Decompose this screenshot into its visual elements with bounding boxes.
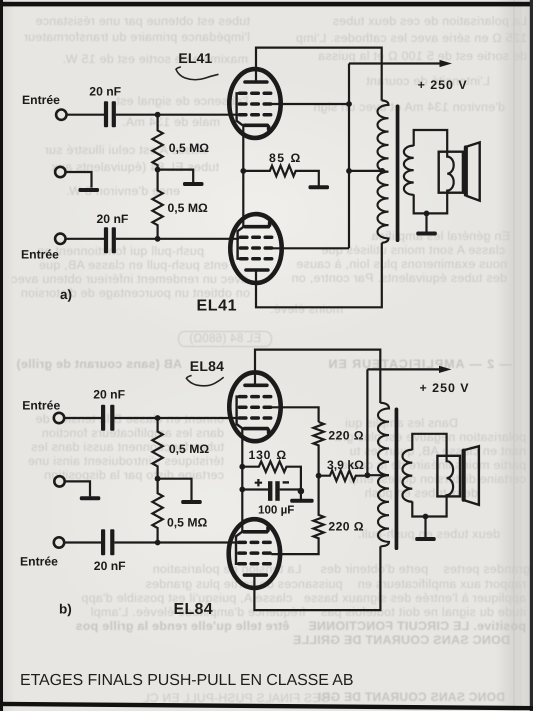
transformer T2 primary winding bbox=[378, 403, 389, 547]
node 220Ω junction bbox=[316, 473, 322, 479]
polarity + mark C5 bbox=[255, 479, 262, 486]
wire C1 to grid V1 bbox=[116, 114, 239, 116]
wire cathode V4 up bbox=[241, 489, 243, 532]
wire input2a to C2 bbox=[66, 238, 105, 240]
terminal stub a (ground input) bbox=[55, 167, 65, 177]
speaker LS1 frame box bbox=[439, 152, 463, 193]
svg-text:20 nF: 20 nF bbox=[94, 559, 126, 573]
node cathode junction a bbox=[240, 168, 246, 174]
+250V supply arrow b bbox=[367, 368, 440, 370]
node cathode/100µF bbox=[239, 487, 245, 493]
node secondary ground junction b bbox=[423, 514, 429, 520]
page border left bbox=[0, 0, 3, 711]
ground b2 (stub) bbox=[80, 496, 101, 500]
node junction C2/R2 bbox=[155, 236, 161, 242]
svg-text:EL41: EL41 bbox=[197, 297, 238, 314]
wire C4 to grid V4 bbox=[114, 541, 239, 543]
svg-text:20 nF: 20 nF bbox=[93, 388, 125, 402]
wire cathodes V1/V2 join bbox=[242, 125, 244, 227]
svg-text:a): a) bbox=[60, 287, 72, 302]
terminal stub b (ground input) bbox=[54, 476, 64, 486]
page border right bbox=[530, 0, 533, 711]
ground b4 (secondary) bbox=[424, 517, 426, 538]
capacitor C2 20 nF bbox=[104, 227, 116, 253]
resistor R5 0,5 MΩ (lower b) bbox=[152, 479, 162, 543]
wire anode V3 to transformer primary top bbox=[255, 350, 380, 403]
wire anode V1 to transformer primary top bbox=[256, 48, 382, 101]
node junction R4/R5 bbox=[155, 476, 161, 482]
speaker LS1 voice coil bbox=[447, 152, 454, 193]
svg-text:0,5 MΩ: 0,5 MΩ bbox=[169, 141, 209, 155]
svg-text:0,5 MΩ: 0,5 MΩ bbox=[168, 201, 208, 215]
wire secondary bottom to speaker a bbox=[414, 192, 448, 213]
wire input1a to C1 bbox=[67, 114, 105, 116]
wire +250V rail b bbox=[366, 369, 368, 475]
svg-text:3,9 kΩ: 3,9 kΩ bbox=[327, 458, 364, 472]
wire center tap T2 bbox=[367, 474, 389, 476]
wire secondary top to speaker b bbox=[412, 434, 446, 456]
svg-text:220Ω: 220Ω bbox=[328, 519, 364, 533]
svg-text:130Ω: 130Ω bbox=[249, 448, 288, 462]
speaker LS1 membrane bar bbox=[464, 145, 468, 196]
node rail/tap a bbox=[346, 168, 352, 174]
node cathode/130Ω bbox=[239, 464, 245, 470]
transformer T2 core bbox=[395, 408, 399, 551]
svg-text:85 Ω: 85 Ω bbox=[269, 151, 302, 165]
svg-text:20 nF: 20 nF bbox=[97, 212, 129, 226]
resistor R9 130 Ω bbox=[242, 461, 301, 499]
wire screen V3 to 220Ω bbox=[272, 407, 319, 422]
capacitor C4 20 nF bbox=[101, 529, 114, 555]
speaker LS2 frame box bbox=[437, 456, 460, 497]
pentode V2 EL41 (lower, flipped) bbox=[230, 214, 281, 283]
capacitor C3 20 nF bbox=[101, 405, 114, 431]
page border top bbox=[0, 2, 533, 7]
node rail/tap b bbox=[365, 472, 371, 478]
svg-text:EL41: EL41 bbox=[178, 50, 212, 66]
page border bottom bbox=[0, 702, 533, 711]
node tap on winding a bbox=[379, 168, 385, 174]
ground b1 bbox=[181, 500, 202, 504]
wire stub a to ground bbox=[66, 172, 92, 188]
node junction C1/R1 bbox=[155, 112, 161, 118]
resistor R4 0,5 MΩ (upper b) bbox=[152, 418, 162, 479]
transformer T2 secondary winding bbox=[403, 450, 413, 502]
wire stub b to ground bbox=[65, 481, 90, 496]
resistor R6 220 Ω (upper screen) bbox=[313, 422, 323, 476]
speaker LS1 cone bbox=[467, 142, 480, 200]
bleed-through text layer goes here bbox=[0, 0, 533, 1]
resistor R8 3,9 kΩ bbox=[319, 470, 368, 481]
pentode V4 EL84 (lower, flipped) bbox=[229, 519, 280, 588]
svg-text:Entrée: Entrée bbox=[22, 399, 60, 413]
node junction R1/R2 bbox=[155, 167, 161, 173]
wire input1b to C3 bbox=[64, 417, 101, 419]
capacitor C1 20 nF bbox=[104, 101, 116, 127]
svg-text:+ 250 V: + 250 V bbox=[418, 78, 468, 92]
wire anode V2 to transformer primary bottom bbox=[256, 243, 382, 307]
transformer T1 primary winding bbox=[377, 100, 388, 242]
terminal input 2a bbox=[55, 234, 65, 244]
svg-text:0,5 MΩ: 0,5 MΩ bbox=[167, 515, 207, 529]
terminal input 2b bbox=[54, 537, 64, 547]
svg-text:20 nF: 20 nF bbox=[89, 85, 121, 99]
transformer T1 secondary winding bbox=[404, 146, 414, 195]
svg-text:Entrée: Entrée bbox=[22, 93, 60, 107]
node junction C3/R4 bbox=[155, 415, 161, 421]
capacitor C5 100 µF bbox=[268, 481, 280, 501]
node secondary ground junction a bbox=[424, 211, 430, 217]
wire screen V1 to +250V rail bbox=[272, 103, 349, 105]
svg-text:0,5 MΩ: 0,5 MΩ bbox=[169, 442, 209, 456]
node screen V1 / rail bbox=[346, 101, 352, 107]
+250V supply arrow a bbox=[349, 62, 441, 64]
pentode V1 EL41 (upper) bbox=[229, 69, 280, 138]
wire center tap T1 bbox=[349, 170, 383, 172]
wire anode V4 to transformer primary bottom bbox=[254, 546, 380, 610]
resistor R1 0,5 MΩ (upper a) bbox=[152, 115, 162, 170]
svg-text:ETAGES FINALS PUSH-PULL EN CLA: ETAGES FINALS PUSH-PULL EN CLASSE AB bbox=[20, 672, 353, 689]
node junction C4/R5 bbox=[155, 540, 161, 546]
ground a2 (stub) bbox=[79, 188, 100, 192]
wire screen V2 to rail bbox=[273, 247, 349, 249]
ground b3 (bias network) bbox=[298, 488, 305, 495]
resistor R7 220 Ω (lower screen) bbox=[271, 476, 324, 554]
resistor R2 0,5 MΩ (lower a) bbox=[152, 170, 162, 239]
annotation squiggle under EL41 bbox=[176, 67, 219, 80]
speaker LS2 membrane bar bbox=[462, 449, 466, 502]
wire junction to ground a1 bbox=[158, 170, 194, 183]
terminal input 1b bbox=[54, 413, 64, 423]
wire +250V rail a bbox=[348, 64, 350, 249]
svg-text:220Ω: 220Ω bbox=[328, 428, 364, 442]
transformer T1 core bbox=[396, 105, 400, 243]
annotation squiggle under EL84 bbox=[186, 375, 223, 385]
wire secondary bottom to speaker b bbox=[412, 496, 446, 516]
speaker LS2 cone bbox=[465, 446, 479, 505]
wire cathode V3 down bbox=[241, 428, 243, 489]
wire 100µF line bbox=[242, 488, 300, 490]
ground a3 (85Ω) bbox=[309, 185, 330, 189]
svg-text:100 µF: 100 µF bbox=[258, 503, 294, 516]
wire secondary top to speaker a bbox=[414, 130, 448, 152]
svg-text:EL84: EL84 bbox=[190, 358, 224, 374]
svg-text:b): b) bbox=[59, 602, 72, 617]
wire C2 to grid V2 bbox=[116, 238, 239, 240]
resistor R3 85 Ω cathode bias bbox=[243, 166, 318, 186]
pentode V3 EL84 (upper) bbox=[229, 372, 280, 441]
svg-text:Entrée: Entrée bbox=[21, 247, 59, 261]
wire input2b to C4 bbox=[64, 541, 101, 543]
ground a4 (secondary) bbox=[425, 213, 427, 231]
wire C3 to grid V3 bbox=[114, 417, 238, 419]
speaker LS2 voice coil bbox=[447, 456, 454, 497]
svg-text:EL84: EL84 bbox=[174, 601, 213, 618]
svg-text:+ 250 V: + 250 V bbox=[420, 381, 470, 395]
terminal input 1a bbox=[56, 110, 66, 120]
polarity − mark C5 bbox=[283, 481, 289, 483]
svg-text:Entrée: Entrée bbox=[20, 555, 58, 569]
wire junction to ground b1 bbox=[158, 479, 192, 501]
ground a1 bbox=[183, 182, 204, 186]
